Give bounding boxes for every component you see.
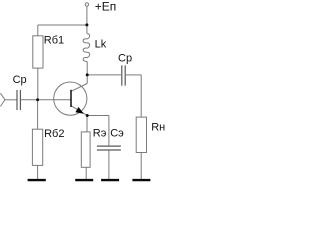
terminal +Ep circle [85, 3, 88, 6]
wire base [21, 99, 71, 101]
wire R62 top lead [37, 100, 39, 129]
node emitter junction [86, 114, 89, 117]
wire emitter to Re [86, 116, 88, 132]
node collector junction [86, 73, 89, 76]
node top junction [85, 23, 88, 26]
wire Ce to ground [108, 151, 110, 179]
wire Rn to ground [140, 153, 142, 180]
resistor Rb2 [32, 129, 42, 165]
wire R62 to ground [37, 165, 39, 179]
wire Cp2 to corner [126, 74, 141, 76]
resistor Rn [136, 117, 146, 152]
ground under Ce [101, 179, 119, 181]
wire +Ep vertical [86, 6, 88, 33]
wire emitter to Ce [87, 115, 109, 117]
svg-text:Ср: Ср [118, 53, 132, 65]
svg-text:Ср: Ср [13, 74, 27, 86]
svg-text:Rб2: Rб2 [44, 128, 64, 140]
wire collector vertical [86, 62, 88, 84]
input terminal arrow [0, 93, 5, 106]
wire Rn top lead [140, 75, 142, 117]
wire collector diagonal [71, 84, 87, 92]
capacitor Ce plates [97, 146, 121, 150]
svg-text:Lk: Lk [95, 39, 107, 51]
inductor Lk [83, 34, 90, 62]
wire R61 top lead [37, 25, 39, 36]
wire R61 bottom lead [37, 68, 39, 100]
capacitor Cp2 plates [122, 65, 125, 85]
svg-text:Rб1: Rб1 [44, 35, 64, 47]
wire collector to Cp2 [87, 74, 121, 76]
svg-text:+Еп: +Еп [95, 0, 117, 14]
capacitor Cp1 plates [17, 90, 20, 110]
ground under R62 [28, 179, 46, 181]
transistor emitter arrow [75, 107, 83, 114]
ground under Rn [132, 179, 150, 181]
wire Ce top lead [108, 116, 110, 146]
ground under Re [75, 179, 93, 181]
svg-text:Сэ: Сэ [110, 128, 124, 140]
wire emitter diagonal [71, 106, 87, 116]
wire top horizontal [38, 24, 87, 26]
svg-text:Rн: Rн [151, 122, 165, 134]
wire Re to ground [85, 167, 87, 179]
wire input to cap [5, 99, 17, 101]
resistor Rb1 [33, 36, 43, 68]
resistor Re [81, 132, 90, 167]
svg-text:Rэ: Rэ [93, 128, 107, 140]
transistor base bar [70, 90, 72, 107]
node base junction [36, 98, 39, 101]
transistor VT circle [54, 82, 87, 115]
